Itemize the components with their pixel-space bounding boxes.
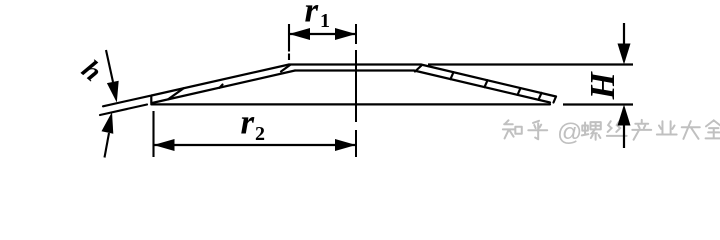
h upper arrowhead [107,81,119,103]
svg-text:@: @ [557,119,582,147]
H bottom leader [623,120,625,148]
tick right bend [415,65,422,72]
washer outline [151,65,556,105]
H bottom arrowhead [618,105,631,126]
right plate upper edge [421,65,556,97]
h lower leader [105,133,110,158]
left tip end face [150,96,152,104]
label r1 [305,0,331,32]
tick left tip [168,88,184,99]
h extension lines [100,96,150,115]
left plate upper edge [152,65,290,96]
tick right plate 4 [539,93,542,100]
svg-text:r: r [305,0,319,30]
H top extension line [428,63,633,65]
r2 left arrowhead [154,139,175,151]
left plate lower edge [152,71,295,104]
flat top inner line [295,69,414,71]
watermark 知 [503,120,522,138]
watermark 螺 [582,122,601,140]
tick left bend [281,65,290,72]
r2 extension tick [152,111,154,157]
bottom line [151,103,550,105]
H bottom extension line [563,103,633,105]
watermark 业 [657,121,677,134]
r1 right arrowhead [335,28,356,40]
svg-text:1: 1 [320,10,330,32]
r1 extension line [288,24,290,60]
tick right plate 2 [485,80,488,87]
watermark 产 [632,120,651,140]
tick right plate 3 [518,88,521,95]
tick small left plate [220,85,223,88]
H top leader [623,23,625,50]
section tick marks [168,65,542,100]
h upper leader [106,50,113,82]
r1 dimension line [289,33,356,35]
r2 right arrowhead [335,139,356,151]
right plate lower edge [414,71,550,103]
svg-text:h: h [76,54,108,88]
H top arrowhead [618,44,631,65]
svg-text:2: 2 [255,123,265,145]
label r2 [241,103,266,146]
r1 left arrowhead [289,28,310,40]
svg-text:r: r [241,103,255,142]
watermark 大 [682,121,700,139]
svg-text:H: H [583,71,622,101]
watermark 全 [706,120,720,138]
right tip end face [554,97,557,103]
r2 dimension line [154,144,357,146]
watermark 乎 [528,121,547,139]
tick right plate 1 [451,72,454,79]
flat top line [289,63,421,65]
centerline (axis) [355,24,357,157]
h lower arrowhead [102,112,114,134]
watermark 丝 [607,121,627,136]
